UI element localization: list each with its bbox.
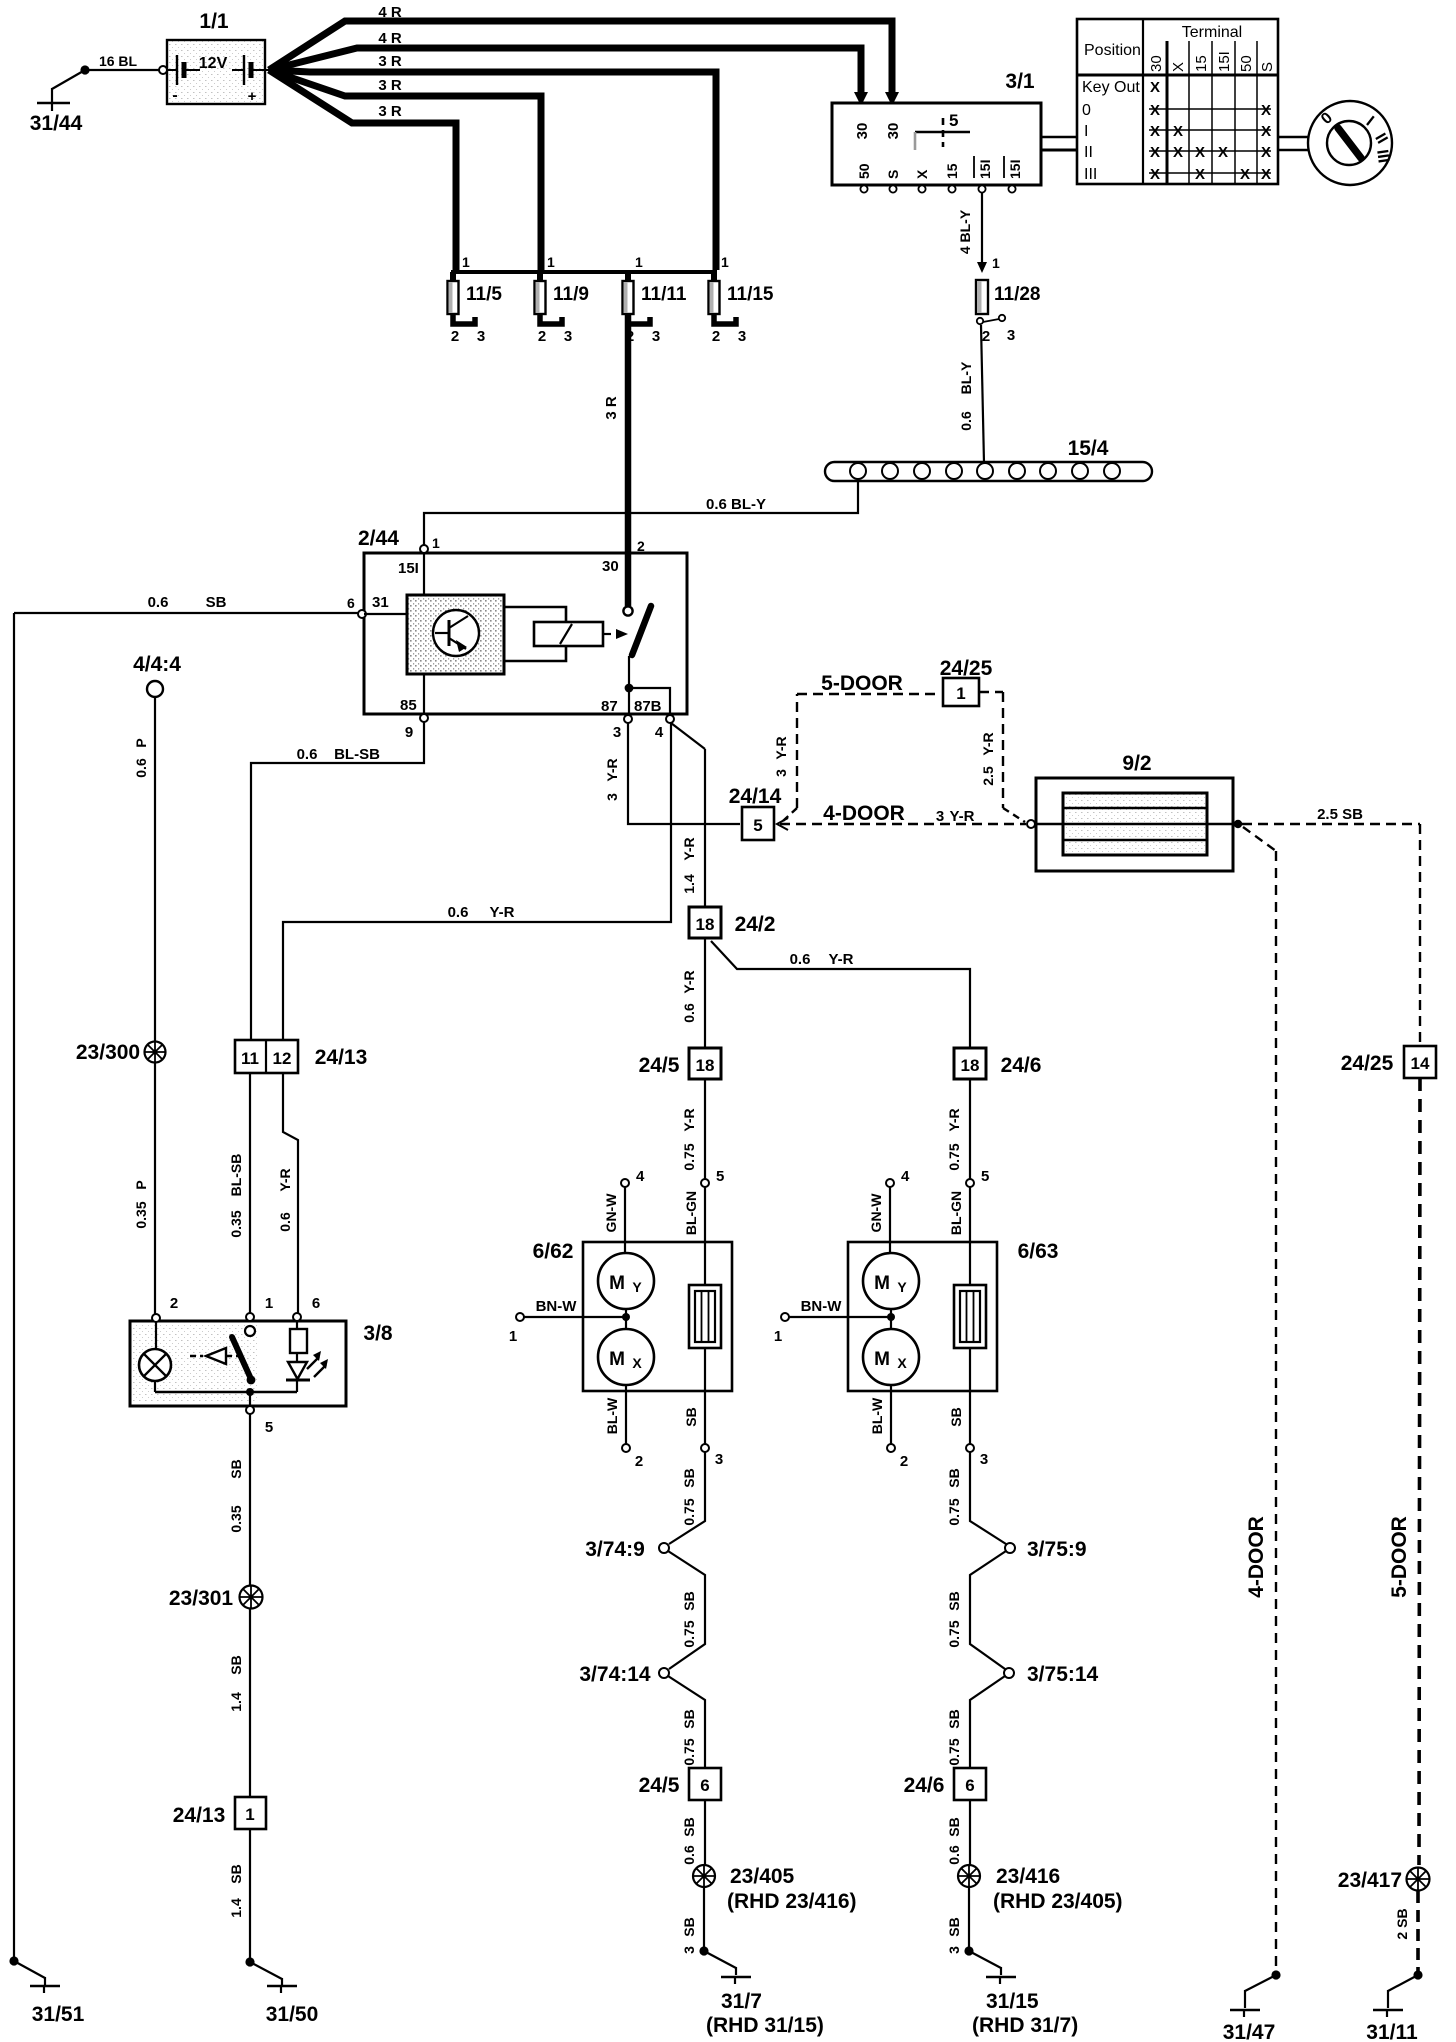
connector 24/25 pin 14 [1341,1046,1436,1078]
svg-text:BL-GN: BL-GN [683,1191,699,1235]
svg-text:X: X [1150,123,1160,140]
svg-text:1: 1 [462,254,470,270]
svg-text:1.4: 1.4 [228,1692,244,1712]
wire 0.6 Y-R (24/2 to 24/6) [711,941,970,1048]
svg-text:15I: 15I [398,560,419,577]
svg-text:SB: SB [946,1817,962,1836]
fuse 11/15 [709,254,774,345]
wire 3 R (battery to fuse 11/9) [269,70,541,270]
svg-text:Terminal: Terminal [1182,24,1242,41]
svg-text:1/1: 1/1 [199,10,229,33]
3/8 lamp [139,1322,171,1392]
svg-text:(RHD 23/416): (RHD 23/416) [727,1890,857,1913]
svg-text:31/15: 31/15 [986,1990,1039,2013]
ground 31/15 [964,1946,1078,2037]
svg-text:GN-W: GN-W [868,1193,884,1233]
wire 0.6 BL-Y (15/4 to relay 2/44 pin 1) [424,479,858,545]
svg-text:15: 15 [1193,55,1210,72]
svg-text:24/14: 24/14 [729,785,782,808]
svg-text:(RHD 31/15): (RHD 31/15) [706,2014,824,2037]
svg-text:Y-R: Y-R [681,970,697,993]
svg-text:24/13: 24/13 [315,1046,368,1069]
svg-text:0.6: 0.6 [148,594,169,611]
splice 23/416 [958,1865,1123,1913]
svg-text:30: 30 [1148,55,1165,72]
svg-text:3: 3 [652,328,660,345]
svg-text:31/44: 31/44 [30,112,83,135]
6/62 pin 2 wire BL-W [604,1385,643,1470]
6/63 pin 1 wire BN-W [774,1298,895,1345]
svg-text:SB: SB [681,1917,697,1936]
svg-text:2/44: 2/44 [358,527,399,550]
svg-text:3: 3 [477,328,485,345]
6/62 pin 4 wire GN-W [603,1168,645,1253]
svg-text:BL-Y: BL-Y [958,361,974,394]
svg-text:X: X [1261,166,1271,183]
svg-text:23/300: 23/300 [76,1041,140,1064]
svg-text:X: X [1218,144,1228,161]
wire 3 R (fuse 11/11 to relay 2/44 pin 2) [603,314,628,606]
svg-text:5: 5 [753,816,762,835]
svg-text:9: 9 [405,724,413,741]
svg-text:15: 15 [944,163,960,179]
svg-text:X: X [632,1355,642,1371]
wire 0.75 Y-R (24/5 to 6/62 pin 5) [681,1079,705,1179]
svg-text:3 R: 3 R [378,77,402,94]
coil actuation arrow [603,629,628,639]
svg-text:3 R: 3 R [378,53,402,70]
svg-text:2: 2 [982,328,990,345]
wire 1.4 SB (23/301 to 24/13 pin 1) [228,1609,250,1797]
svg-text:3: 3 [773,769,789,777]
mirror motor unit 6/62 [533,1240,732,1391]
svg-text:X: X [1261,123,1271,140]
svg-text:2.5 SB: 2.5 SB [1317,806,1363,823]
svg-text:1: 1 [265,1295,273,1312]
dashed wire 3 Y-R 4-DOOR (24/14 to 9/2) [777,802,1035,830]
svg-text:0.75: 0.75 [681,1738,697,1765]
svg-text:SB: SB [228,1864,244,1883]
wire 0.75 SB (3/74:9 to 3/74:14) [668,1551,705,1669]
splice 3/74:14 [579,1663,669,1686]
svg-text:X: X [1170,62,1187,72]
svg-text:SB: SB [683,1407,699,1426]
svg-text:0.6 BL-Y: 0.6 BL-Y [706,496,766,513]
svg-text:3: 3 [613,724,621,741]
svg-text:Y: Y [897,1279,907,1295]
svg-text:11/28: 11/28 [994,284,1041,305]
svg-text:3: 3 [980,1451,988,1468]
wire 0.35 P (23/300 to switch 3/8 pin 2) [133,1063,155,1314]
wire 0.75 SB (6/62 pin 3 to splice 3/74:9) [669,1452,705,1544]
svg-text:3/75:14: 3/75:14 [1027,1663,1099,1686]
6/62 pin 1 wire BN-W [509,1298,630,1345]
svg-text:SB: SB [206,594,227,611]
splice 3/75:9 [1005,1538,1087,1561]
wire 0.6 SB (24/5 to splice 23/405) [681,1800,705,1865]
svg-text:6: 6 [700,1776,709,1795]
svg-text:1: 1 [774,1328,782,1345]
mechanical link ignition to table [1041,137,1077,150]
connector 4/4:4 [133,653,181,697]
svg-text:1: 1 [635,254,643,270]
svg-text:12: 12 [273,1049,292,1068]
wire 0.6 Y-R (24/13 pin 12 to node at 87B) [283,723,671,1040]
svg-text:3/1: 3/1 [1005,70,1035,93]
svg-text:SB: SB [946,1709,962,1728]
svg-text:SB: SB [681,1817,697,1836]
svg-text:X: X [1261,144,1271,161]
svg-text:30: 30 [885,123,902,140]
3/8 actuation arrow [190,1348,238,1364]
svg-text:11/5: 11/5 [466,284,502,305]
svg-text:11/11: 11/11 [641,284,687,305]
svg-text:0.6: 0.6 [681,1845,697,1865]
wires amplifier to relay coil [504,607,566,661]
svg-text:Position: Position [1084,42,1141,59]
svg-text:0.6: 0.6 [297,746,318,763]
position/terminal table [1077,19,1278,184]
svg-text:-: - [172,87,177,104]
svg-text:15I: 15I [1007,160,1023,179]
svg-text:Y-R: Y-R [946,1108,962,1131]
svg-text:3 R: 3 R [378,103,402,120]
svg-text:3: 3 [715,1451,723,1468]
amplifier block with transistor [407,595,504,674]
svg-text:24/5: 24/5 [639,1054,680,1077]
svg-text:11: 11 [241,1049,259,1068]
svg-text:50: 50 [856,163,872,179]
svg-text:SB: SB [946,1468,962,1487]
svg-text:12V: 12V [199,55,228,72]
svg-text:23/301: 23/301 [169,1587,234,1610]
svg-text:Y-R: Y-R [681,1108,697,1131]
svg-text:3: 3 [604,793,620,801]
svg-text:31/47: 31/47 [1223,2021,1276,2042]
ground 31/11 [1366,1970,1422,2042]
svg-text:31/11: 31/11 [1366,2021,1418,2042]
connector 24/6 pin 18 [954,1048,1041,1079]
svg-text:3/8: 3/8 [363,1322,393,1345]
connector 24/5 pin 6 [639,1768,721,1800]
wire 3 SB (23/416 to ground 31/15) [946,1887,969,1954]
svg-text:BL-W: BL-W [604,1397,620,1434]
svg-text:1: 1 [992,255,1000,271]
svg-text:1: 1 [509,1328,517,1345]
svg-text:3: 3 [946,1946,962,1954]
6/62 heater element [689,1285,721,1348]
svg-text:0.6: 0.6 [277,1212,293,1232]
svg-text:Y-R: Y-R [980,732,996,755]
svg-text:0.6: 0.6 [946,1845,962,1865]
svg-text:BL-W: BL-W [869,1397,885,1434]
svg-text:0.75: 0.75 [681,1143,697,1170]
svg-text:3: 3 [1007,327,1015,344]
svg-text:M: M [874,1349,890,1370]
wire 0.75 Y-R (24/6 to 6/63 pin 5) [946,1079,970,1179]
6/62 motor X [598,1329,654,1385]
svg-text:3: 3 [936,808,944,825]
svg-text:0.75: 0.75 [681,1620,697,1647]
svg-text:3/75:9: 3/75:9 [1027,1538,1087,1561]
svg-text:5: 5 [981,1168,989,1185]
svg-text:4/4:4: 4/4:4 [133,653,181,676]
connector 24/6 pin 6 [904,1768,986,1800]
svg-text:III: III [1373,149,1392,165]
svg-text:23/405: 23/405 [730,1865,795,1888]
svg-text:4: 4 [636,1168,645,1185]
wire 3 R (battery to fuse 11/15) [269,53,716,270]
svg-text:2: 2 [900,1453,908,1470]
svg-text:3/74:14: 3/74:14 [579,1663,651,1686]
6/63 heater element [954,1285,986,1348]
svg-text:1: 1 [245,1805,254,1824]
fuse 11/28 [976,280,1041,345]
wire 4 R (battery to ignition 30 left) [269,30,868,106]
wire 4 BL-Y (ignition 15I to fuse 11/28) [957,193,1000,273]
svg-text:2: 2 [538,328,546,345]
wire 4 R (battery to ignition 30 right) [269,4,899,106]
wire 0.6 BL-SB (relay pin 9 to 24/13 pin 11) [251,722,424,1040]
dashed wire 3 Y-R 5-DOOR (to 24/25 pin 1) [773,672,941,821]
svg-text:30: 30 [854,123,871,140]
6/63 pin 3 wire SB [948,1348,988,1468]
svg-text:5: 5 [265,1419,273,1436]
svg-text:5-DOOR: 5-DOOR [821,672,903,695]
svg-text:0.35: 0.35 [133,1201,149,1228]
connector 24/14 pin 5 [729,785,782,840]
svg-text:X: X [897,1355,907,1371]
wire SB 0.35 (3/8 pin 5 to 23/301) [228,1414,250,1586]
svg-text:SB: SB [946,1917,962,1936]
3/8 internal bus wire [155,1388,297,1406]
svg-text:5: 5 [716,1168,724,1185]
svg-text:X: X [914,169,930,179]
svg-text:0.35: 0.35 [228,1210,244,1237]
svg-text:30: 30 [602,558,619,575]
dashed wire 2.5 Y-R (24/25 to 4-door node) [979,692,1025,822]
svg-text:SB: SB [681,1709,697,1728]
svg-text:24/25: 24/25 [940,657,993,680]
svg-text:0.6: 0.6 [958,411,974,431]
wire amplifier to pin9 [423,674,425,714]
svg-text:4: 4 [655,724,664,741]
svg-text:6: 6 [312,1295,320,1312]
wire 0.75 SB (3/75:14 to 24/6 pin 6) [946,1676,1005,1768]
6/63 motor X [863,1329,919,1385]
svg-text:16 BL: 16 BL [99,53,138,69]
svg-text:15I: 15I [977,160,993,179]
svg-text:0.75: 0.75 [946,1738,962,1765]
svg-text:15I: 15I [1216,51,1233,72]
svg-text:Y-R: Y-R [773,736,789,759]
svg-text:0.6: 0.6 [448,904,469,921]
ground 31/7 [699,1946,823,2037]
svg-text:0.6: 0.6 [681,1003,697,1023]
6/63 pin 4 wire GN-W [868,1168,910,1253]
svg-text:1: 1 [721,254,729,270]
svg-text:SB: SB [681,1468,697,1487]
svg-text:1.4: 1.4 [228,1898,244,1918]
svg-text:24/6: 24/6 [1001,1054,1042,1077]
fuse 11/9 [535,254,589,345]
svg-text:P: P [133,738,149,747]
connector strip 15/4 [825,437,1152,481]
battery 1/1 [159,10,269,105]
svg-text:85: 85 [400,697,417,714]
svg-text:X: X [1240,166,1250,183]
mirror motor unit 6/63 [848,1240,1058,1391]
wire 16 BL [80,53,160,75]
svg-text:87: 87 [601,698,618,715]
wire 0.6 SB (relay pin 6 to ground 31/51 rail) [14,594,358,1961]
svg-text:Y-R: Y-R [949,808,974,825]
wire 3 R (battery to fuse 11/5) [269,70,456,270]
svg-text:3: 3 [681,1946,697,1954]
3/8 LED with resistor [286,1321,328,1392]
wire 1.4 SB (24/13 to ground 31/50) [228,1829,250,1962]
svg-text:2: 2 [170,1295,178,1312]
svg-text:BN-W: BN-W [536,1298,578,1315]
dashed wire 5-DOOR (24/25 pin 14 to 23/417) [1388,1078,1420,1865]
splice 23/417 [1338,1868,1430,1893]
svg-text:24/5: 24/5 [639,1774,680,1797]
switch 3/8 [130,1295,393,1436]
svg-text:50: 50 [1238,55,1255,72]
svg-text:11/15: 11/15 [727,284,774,305]
wire 3 Y-R (relay pin 3 to 24/14) [604,723,740,824]
svg-text:23/416: 23/416 [996,1865,1060,1888]
splice 23/405 [693,1865,857,1913]
dashed wire 4-DOOR down (9/2 to ground 31/47) [1243,827,1276,1973]
svg-text:4: 4 [901,1168,910,1185]
wire 0.6 SB (24/6 to splice 23/416) [946,1800,970,1865]
svg-text:14: 14 [1411,1054,1430,1073]
6/63 motor Y [863,1253,919,1309]
6/63 pin 5 wire BL-GN [948,1168,989,1285]
svg-text:0.6: 0.6 [790,951,811,968]
svg-text:23/417: 23/417 [1338,1869,1402,1892]
ground 31/51 [9,1956,84,2026]
svg-text:X: X [1195,144,1205,161]
svg-text:(RHD 31/7): (RHD 31/7) [972,2014,1078,2037]
fuse bus wire [451,270,717,274]
wire 2 SB (23/417 to ground 31/11) [1394,1891,1418,1972]
svg-text:31: 31 [372,594,389,611]
relay 2/44 [347,527,687,741]
svg-text:SB: SB [948,1407,964,1426]
svg-text:6: 6 [347,595,355,611]
svg-text:III: III [1084,166,1097,183]
splice 23/300 [76,1041,166,1064]
svg-text:18: 18 [696,1056,715,1075]
svg-text:SB: SB [228,1655,244,1674]
3/8 switch lever [232,1326,255,1384]
splice 3/74:9 [585,1538,669,1561]
svg-text:S: S [1259,62,1276,72]
6/62 motor Y [598,1253,654,1309]
svg-text:X: X [1261,102,1271,119]
fuse 11/11 [623,254,687,345]
svg-text:31/7: 31/7 [721,1990,762,2013]
wire pin1 to amplifier [423,553,425,595]
svg-text:5-DOOR: 5-DOOR [1388,1516,1411,1598]
dashed wire 2.5 SB (9/2 to 24/25 pin 14) [1242,806,1420,1046]
svg-text:X: X [1150,79,1160,96]
svg-text:2: 2 [451,328,459,345]
connector 24/2 pin 18 [689,907,775,938]
svg-text:X: X [1150,166,1160,183]
wire 0.75 SB (3/75:9 to 3/75:14) [946,1551,1006,1669]
svg-text:Y-R: Y-R [277,1168,293,1191]
svg-text:(RHD 23/405): (RHD 23/405) [993,1890,1123,1913]
step motor 9/2 [1035,752,1242,871]
svg-text:2.5: 2.5 [980,766,996,786]
svg-text:S: S [885,170,901,179]
svg-text:BL-GN: BL-GN [948,1191,964,1235]
svg-text:0.75: 0.75 [681,1498,697,1525]
splice 23/301 [169,1586,263,1611]
svg-text:0: 0 [1082,102,1091,119]
svg-text:2 SB: 2 SB [1394,1908,1410,1939]
svg-text:I: I [1084,123,1088,140]
svg-text:0.6: 0.6 [133,758,149,778]
svg-text:5: 5 [949,111,958,130]
svg-text:Y: Y [632,1279,642,1295]
svg-text:87B: 87B [634,698,662,715]
connector 24/13 pin 1 [173,1797,266,1829]
svg-text:SB: SB [228,1459,244,1478]
svg-text:SB: SB [681,1591,697,1610]
svg-text:1: 1 [547,254,555,270]
relay coil [534,622,603,646]
svg-text:4 R: 4 R [378,4,402,21]
wire 0.6 P (4/4:4 to 23/300) [133,697,155,1041]
svg-text:18: 18 [961,1056,980,1075]
fuse 11/5 [448,254,503,345]
svg-text:0.75: 0.75 [946,1143,962,1170]
svg-text:BL-SB: BL-SB [228,1154,244,1197]
svg-text:Y-R: Y-R [604,758,620,781]
svg-text:3: 3 [564,328,572,345]
svg-text:0.75: 0.75 [946,1620,962,1647]
svg-text:4 R: 4 R [378,30,402,47]
svg-text:X: X [1173,123,1183,140]
svg-text:2: 2 [637,538,645,554]
svg-text:II: II [1084,144,1093,161]
svg-text:11/9: 11/9 [553,284,589,305]
relay contact [623,606,670,715]
svg-text:Y-R: Y-R [681,837,697,860]
svg-text:6: 6 [965,1776,974,1795]
ignition key symbol [1308,101,1392,185]
svg-text:3: 3 [738,328,746,345]
mechanical link table to key [1279,137,1310,150]
svg-text:1.4: 1.4 [681,874,697,894]
wire 0.6 BL-Y (fuse 11/28 to 15/4) [958,325,984,463]
6/62 pin 3 wire SB [683,1348,723,1468]
svg-text:0.75: 0.75 [946,1498,962,1525]
wire 0.6 Y-R (24/2 to 24/5) [681,938,705,1048]
svg-text:BN-W: BN-W [801,1298,843,1315]
svg-text:P: P [133,1180,149,1189]
wire pin6 to amplifier [364,613,407,615]
svg-text:3/74:9: 3/74:9 [585,1538,645,1561]
svg-text:M: M [609,1349,625,1370]
wire 0.75 SB (6/63 pin 3 to splice 3/75:9) [946,1452,1006,1544]
svg-text:SB: SB [946,1591,962,1610]
svg-text:M: M [874,1273,890,1294]
